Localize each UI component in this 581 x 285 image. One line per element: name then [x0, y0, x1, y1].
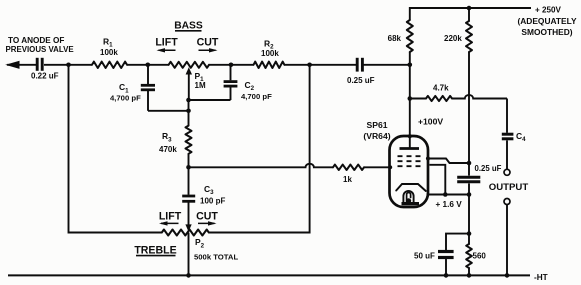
treble cut arrow [198, 221, 217, 225]
wire (grid, hop over treble riser) [189, 164, 334, 168]
svg-text:LIFT: LIFT [155, 37, 178, 49]
treble lift arrow [159, 221, 179, 225]
svg-text:100k: 100k [261, 49, 279, 58]
node E [186, 273, 191, 278]
output terminal (lower) [504, 199, 510, 205]
valve screen pin [426, 156, 430, 160]
label TO ANODE OF PREVIOUS VALVE [6, 36, 74, 54]
svg-text:4.7k: 4.7k [433, 84, 449, 93]
node D [186, 165, 191, 170]
potentiometer P1 [169, 62, 209, 100]
valve U1 SP61 envelope [390, 136, 429, 207]
node F [307, 63, 312, 68]
node M [444, 273, 449, 278]
cathode wire [427, 195, 470, 210]
svg-text:PREVIOUS VALVE: PREVIOUS VALVE [6, 45, 74, 54]
svg-text:+ 250V: + 250V [535, 6, 561, 15]
node B [146, 63, 151, 68]
svg-text:LIFT: LIFT [159, 210, 182, 222]
node H (anode feed) [408, 63, 413, 68]
svg-text:560: 560 [473, 252, 487, 261]
svg-text:CUT: CUT [197, 37, 219, 49]
wire [69, 65, 162, 233]
resistor R2 [254, 38, 285, 68]
capacitor C1 [110, 65, 189, 111]
label SP61 (VR64) [363, 120, 390, 141]
output terminal (upper) [504, 169, 510, 175]
valve grid pin [388, 165, 392, 169]
svg-text:4,700 pF: 4,700 pF [241, 92, 272, 101]
svg-text:68k: 68k [388, 34, 402, 43]
svg-text:CUT: CUT [196, 210, 218, 222]
wire [44, 64, 92, 66]
label TREBLE [134, 244, 176, 256]
bass lift arrow [157, 48, 176, 52]
suppressor lead [430, 165, 446, 195]
svg-text:SP61: SP61 [366, 120, 387, 130]
svg-text:-HT: -HT [534, 273, 548, 282]
svg-text:0.25 uF: 0.25 uF [475, 164, 502, 173]
svg-text:SMOOTHED): SMOOTHED) [521, 27, 572, 37]
svg-text:100 pF: 100 pF [200, 197, 225, 206]
screen lead [428, 159, 467, 164]
node O [505, 273, 510, 278]
wire [188, 100, 190, 126]
wire [409, 65, 411, 99]
wire [209, 65, 310, 233]
bass cut arrow [199, 48, 218, 52]
svg-text:(ADEQUATELY: (ADEQUATELY [517, 16, 577, 26]
capacitor 0.25uF coupling [347, 58, 375, 85]
wire [188, 233, 190, 276]
potentiometer P2 [162, 230, 239, 262]
capacitor C3 [182, 167, 225, 205]
valve cathode/heater [396, 184, 426, 204]
resistor 4.7k [410, 84, 452, 102]
svg-text:OUTPUT: OUTPUT [489, 182, 529, 193]
node C1-wiper [186, 109, 191, 114]
capacitor C4 [502, 99, 526, 170]
resistor 220k [444, 8, 472, 163]
node G [467, 6, 472, 11]
valve anode [400, 99, 420, 149]
svg-text:TREBLE: TREBLE [134, 244, 176, 256]
input arrow [7, 61, 37, 68]
node C [229, 63, 234, 68]
resistor R3 [159, 126, 192, 155]
wiper wire P2 [185, 203, 191, 232]
capacitor 0.22uF [31, 58, 59, 81]
svg-text:220k: 220k [444, 34, 462, 43]
node K [443, 192, 448, 197]
svg-text:(VR64): (VR64) [363, 131, 390, 141]
node I [408, 96, 413, 101]
svg-text:+100V: +100V [418, 117, 443, 127]
resistor R1 [92, 37, 127, 69]
capacitor 0.25uF screen bypass [457, 163, 501, 195]
resistor 68k [388, 20, 413, 65]
svg-text:500k TOTAL: 500k TOTAL [194, 253, 238, 262]
svg-text:4,700 pF: 4,700 pF [110, 93, 141, 102]
node J (screen) [467, 161, 472, 166]
wire [209, 64, 254, 66]
node A [66, 63, 71, 68]
svg-text:TO ANODE OF: TO ANODE OF [8, 36, 64, 45]
svg-text:100k: 100k [100, 48, 118, 57]
+250V supply rail [410, 6, 577, 38]
svg-text:+ 1.6 V: + 1.6 V [436, 200, 463, 209]
svg-text:1M: 1M [195, 81, 206, 90]
node C2-wiper [186, 98, 191, 103]
svg-text:50 uF: 50 uF [414, 251, 435, 260]
capacitor 50uF [414, 234, 469, 276]
wire [364, 166, 391, 168]
-HT bus [8, 273, 548, 282]
node L [467, 192, 472, 197]
svg-text:1k: 1k [343, 175, 352, 184]
capacitor C2 [189, 65, 273, 101]
wire [506, 205, 508, 276]
wire [127, 64, 169, 66]
svg-text:BASS: BASS [174, 21, 203, 32]
wire (hop over 220k line) [452, 95, 507, 99]
valve grids (dashed) [398, 156, 421, 166]
wire [284, 64, 356, 66]
node M2 [467, 231, 472, 236]
wire [188, 154, 190, 168]
label BASS [174, 21, 203, 32]
svg-text:470k: 470k [159, 145, 177, 154]
svg-text:0.22 uF: 0.22 uF [31, 72, 59, 81]
wire [364, 64, 410, 66]
node N [467, 273, 472, 278]
resistor 1k [333, 165, 364, 184]
resistor 560 (cathode) [466, 195, 486, 276]
svg-text:0.25 uF: 0.25 uF [347, 76, 375, 85]
